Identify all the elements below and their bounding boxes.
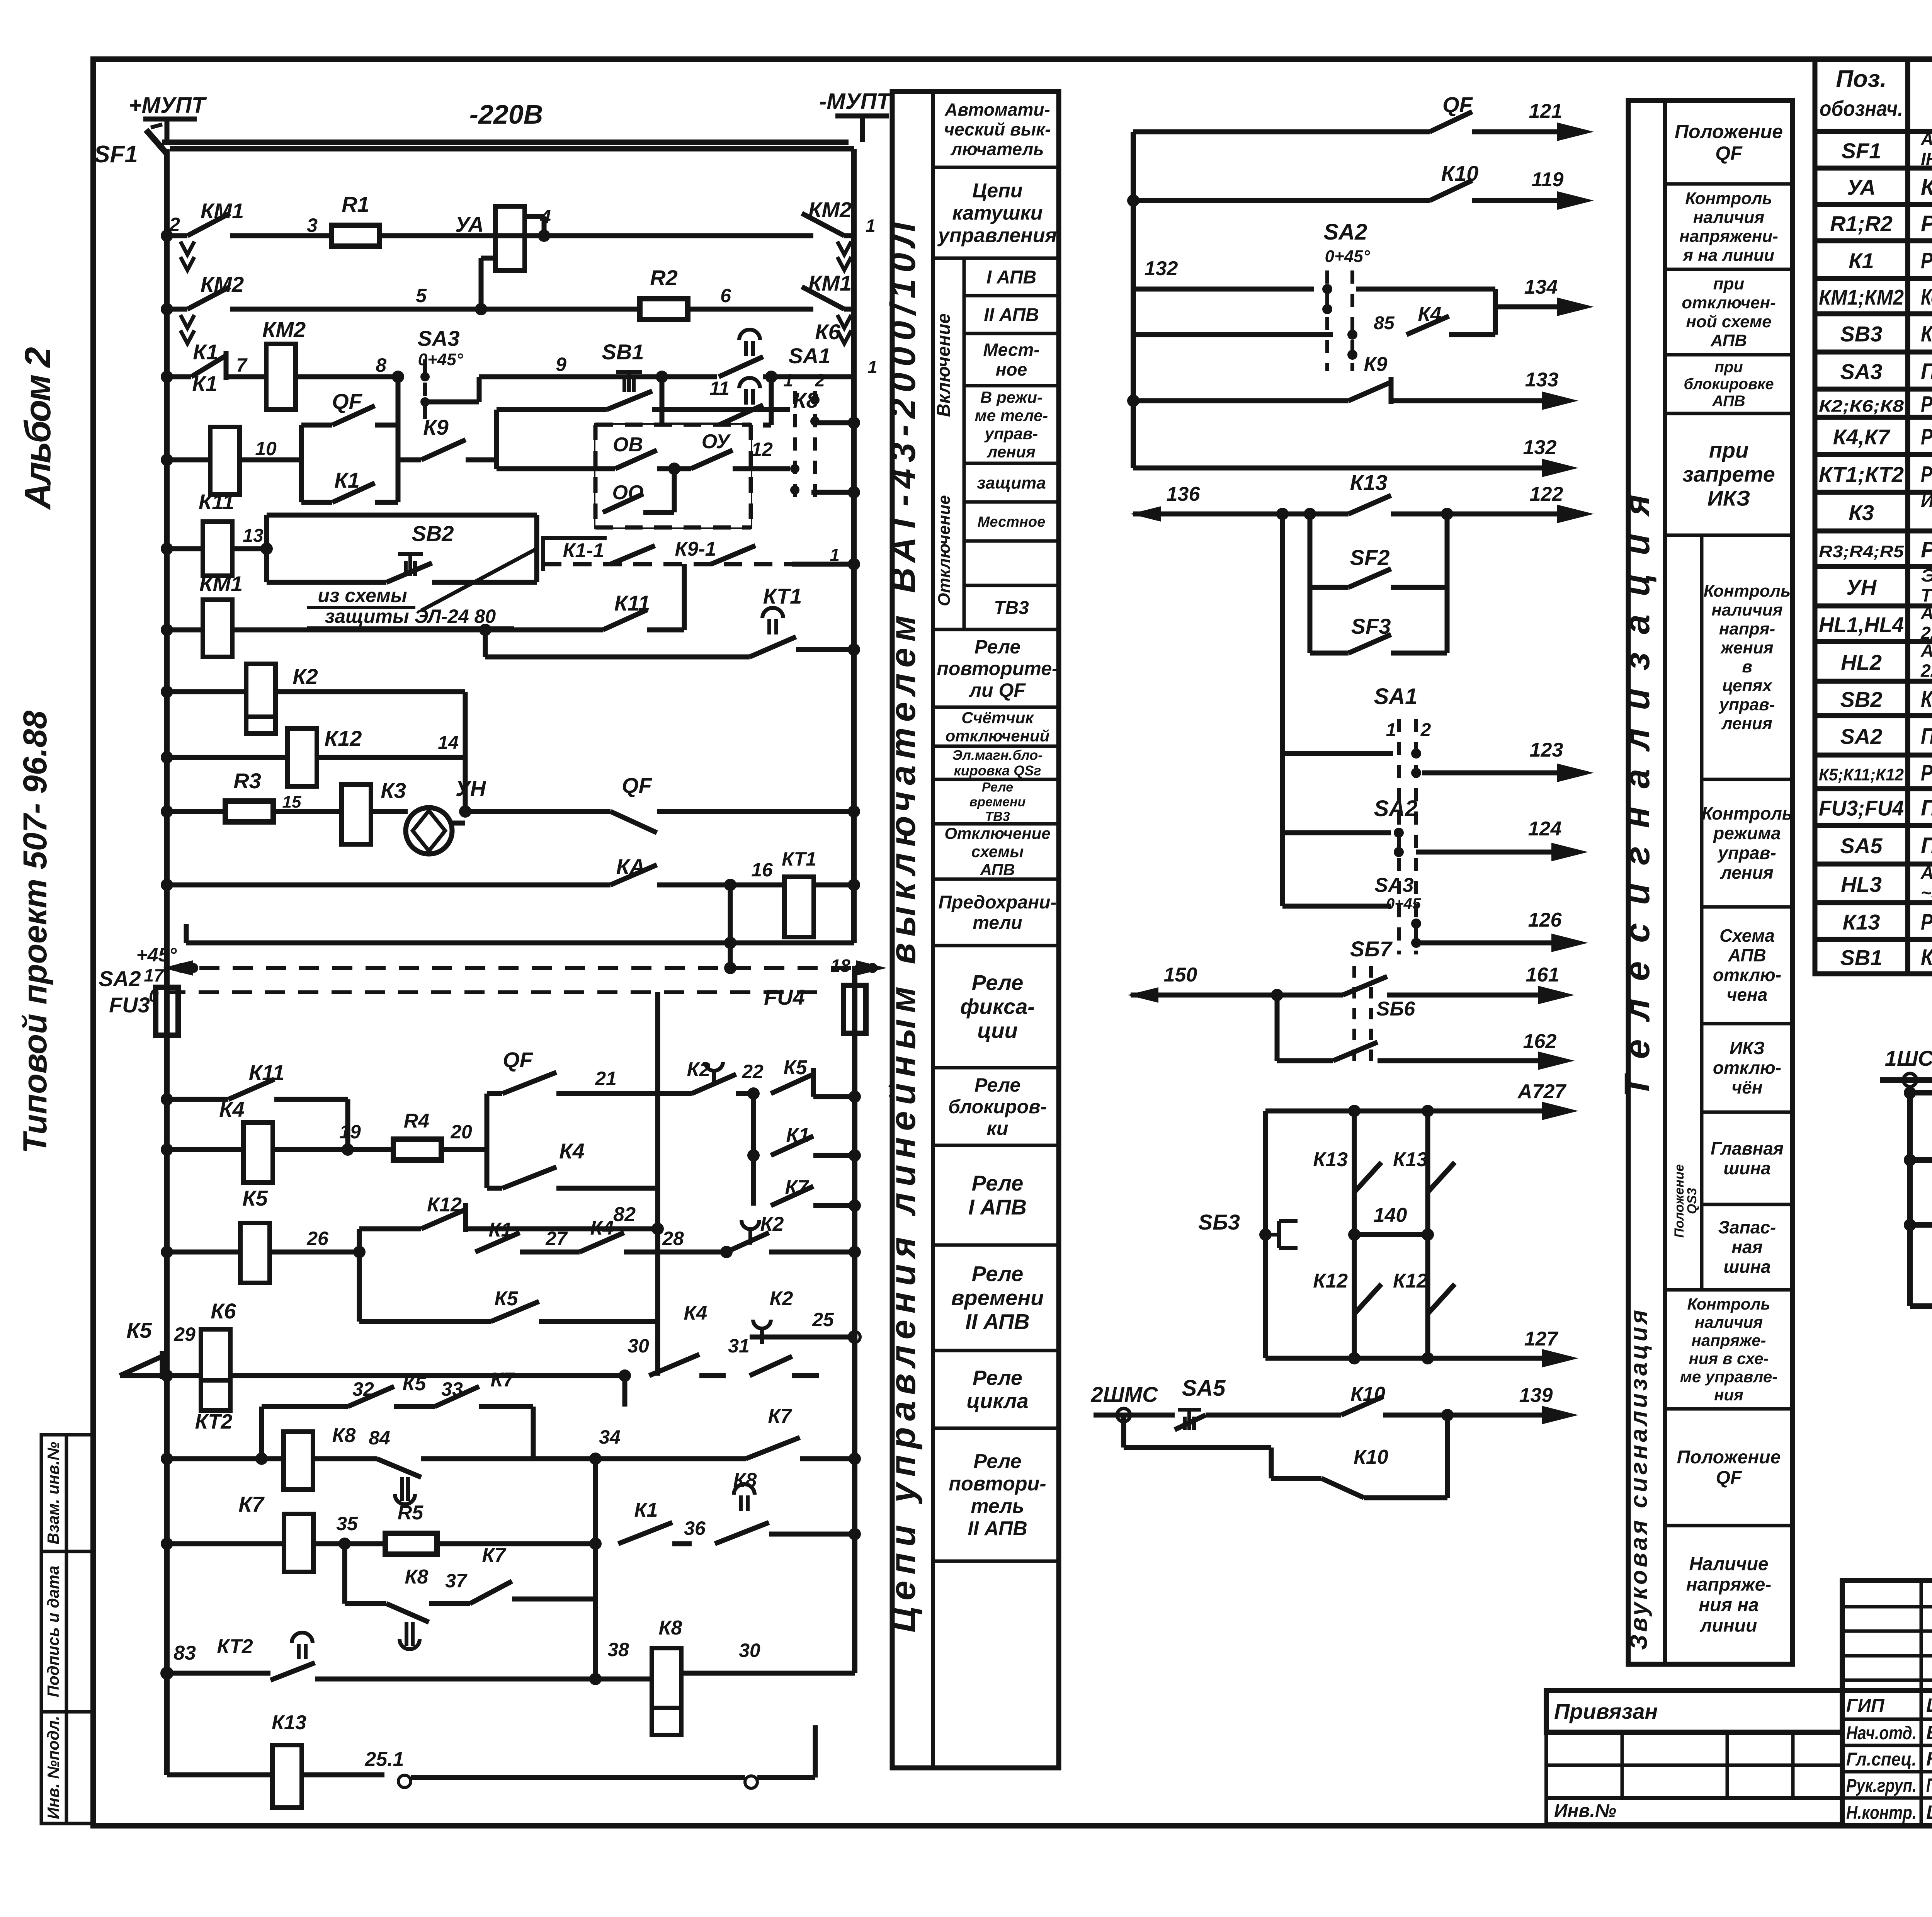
svg-text:К13: К13 xyxy=(1350,470,1388,495)
wire row 127 xyxy=(1265,1356,1546,1361)
svg-text:19: 19 xyxy=(339,1121,361,1143)
parts table grid xyxy=(1815,59,1932,974)
svg-text:Реле: Реле xyxy=(975,1074,1020,1096)
svg-text:Переключатель ТП1-2УСО.360.049: Переключатель ТП1-2УСО.360.049ТУ xyxy=(1921,833,1932,858)
svg-text:катушки: катушки xyxy=(952,202,1043,224)
svg-text:Цепи управления линейным вы: Цепи управления линейным выключателем ВА… xyxy=(883,221,923,1633)
svg-text:35: 35 xyxy=(336,1513,358,1534)
svg-text:К3: К3 xyxy=(381,778,406,803)
svg-text:К1-1: К1-1 xyxy=(563,539,604,562)
contact K4 row 85 xyxy=(1133,332,1333,337)
svg-text:ния на: ния на xyxy=(1699,1595,1759,1616)
svg-text:УА: УА xyxy=(455,212,484,236)
band2 cell при xyxy=(1665,353,1793,357)
svg-text:К13: К13 xyxy=(1843,910,1880,934)
svg-text:37: 37 xyxy=(445,1570,468,1592)
svg-text:QS3: QS3 xyxy=(1685,1188,1699,1214)
svg-text:К7: К7 xyxy=(491,1369,515,1391)
svg-text:Электромагнитный блок-замок 36: Электромагнитный блок-замок 36-1У3; -220… xyxy=(1921,565,1932,585)
svg-text:схемы: схемы xyxy=(971,842,1024,861)
svg-text:Мест-: Мест- xyxy=(983,340,1039,360)
svg-text:1: 1 xyxy=(867,357,878,377)
resistor R2 xyxy=(640,299,688,320)
wire 126 row xyxy=(1282,904,1391,909)
svg-text:Инв.№: Инв.№ xyxy=(1554,1801,1616,1821)
table row К4,К7 xyxy=(1815,452,1932,457)
svg-text:К7: К7 xyxy=(768,1405,793,1427)
svg-text:SA5: SA5 xyxy=(1182,1376,1226,1401)
svg-text:123: 123 xyxy=(1530,739,1563,761)
table row SA2 xyxy=(1815,753,1932,758)
svg-text:Переключатель УП5313-Ж70 ТУ16-: Переключатель УП5313-Ж70 ТУ16-524.074-75 xyxy=(1921,359,1932,384)
svg-text:напря-: напря- xyxy=(1719,619,1775,638)
svg-text:из схемы: из схемы xyxy=(318,585,407,606)
svg-text:К3: К3 xyxy=(1849,500,1874,525)
svg-text:2: 2 xyxy=(1420,720,1431,740)
wire row 132 bottom xyxy=(1133,466,1546,471)
lamp HL4 row 137 xyxy=(1910,1303,1932,1309)
svg-text:+45°: +45° xyxy=(136,944,177,966)
svg-text:тель: тель xyxy=(971,1495,1024,1517)
svg-text:АПВ: АПВ xyxy=(980,861,1015,879)
svg-text:1: 1 xyxy=(866,216,876,236)
svg-text:времени: времени xyxy=(969,794,1026,809)
band Телесигнализация / Звуковая сигнализация xyxy=(1628,100,1793,1664)
table row УН xyxy=(1815,604,1932,609)
svg-text:блокировке: блокировке xyxy=(1684,376,1774,393)
band2 cell Запас- xyxy=(1702,1203,1793,1206)
svg-text:SF1: SF1 xyxy=(1842,139,1881,163)
svg-text:HL1,HL4: HL1,HL4 xyxy=(1819,612,1904,637)
svg-text:К1: К1 xyxy=(334,468,360,492)
svg-text:161: 161 xyxy=(1526,964,1560,986)
svg-text:HL2: HL2 xyxy=(1841,650,1882,675)
table row УА xyxy=(1815,202,1932,207)
svg-text:АПВ: АПВ xyxy=(1712,393,1745,410)
pushbutton SB1 row 11 xyxy=(494,410,499,469)
return wire xyxy=(184,924,189,943)
svg-text:Контактор МК-1/20У3А;220В;б.к.: Контактор МК-1/20У3А;220В;б.к.2у+2р;ТУ16… xyxy=(1921,285,1932,310)
svg-text:Альбом 2: Альбом 2 xyxy=(17,347,58,510)
svg-text:управ-: управ- xyxy=(1719,695,1775,714)
svg-text:Привязан: Привязан xyxy=(1554,1699,1658,1723)
wire row 9 xyxy=(479,374,717,379)
svg-text:тели: тели xyxy=(973,913,1022,933)
svg-text:Арматура светосигнальная АЕ-32: Арматура светосигнальная АЕ-325, xyxy=(1920,603,1932,623)
svg-text:Автомати-: Автомати- xyxy=(944,100,1050,120)
table row HL3 xyxy=(1815,900,1932,905)
svg-text:SA3: SA3 xyxy=(1374,874,1413,896)
svg-text:Реле: Реле xyxy=(972,1261,1024,1286)
svg-text:6: 6 xyxy=(720,285,731,306)
svg-text:SB1: SB1 xyxy=(1840,946,1883,970)
band1 cell Реле xyxy=(933,1243,1059,1247)
svg-text:21: 21 xyxy=(595,1068,617,1089)
band2 cell Контроль xyxy=(1702,534,1793,537)
svg-text:напряже-: напряже- xyxy=(1686,1575,1772,1595)
svg-text:запрете: запрете xyxy=(1682,462,1775,486)
coil KT2 row 34 xyxy=(161,1453,173,1465)
svg-text:шина: шина xyxy=(1723,1158,1770,1178)
svg-text:ТВ3: ТВ3 xyxy=(994,598,1029,618)
svg-text:Блохин: Блохин xyxy=(1926,1722,1932,1744)
sidebar box Подпись и дата xyxy=(41,1551,94,1712)
band1 subcell В режи- xyxy=(964,384,1059,388)
band2 cell при xyxy=(1665,268,1793,271)
svg-text:119: 119 xyxy=(1532,168,1564,191)
contact SB6 row 162 xyxy=(1275,995,1280,1061)
svg-text:повторите-: повторите- xyxy=(937,658,1058,679)
wire 12 to SA1 xyxy=(751,466,790,471)
svg-text:Резистор ПЭ-150; 40м; ГОСТ 651: Резистор ПЭ-150; 40м; ГОСТ 6513-75 xyxy=(1921,211,1932,236)
svg-text:К12: К12 xyxy=(1393,1270,1428,1292)
contact row 133 xyxy=(1127,395,1139,407)
svg-text:К6: К6 xyxy=(815,320,840,344)
table row SF1 xyxy=(1815,166,1932,171)
long vertical 82 xyxy=(655,992,660,1376)
svg-text:КТ1: КТ1 xyxy=(763,584,802,608)
table row HL1,HL4 xyxy=(1815,639,1932,644)
svg-text:38: 38 xyxy=(607,1639,629,1660)
svg-text:КТ1: КТ1 xyxy=(782,848,816,870)
svg-text:QF: QF xyxy=(332,389,363,413)
svg-text:SБ3: SБ3 xyxy=(1198,1210,1240,1234)
contact K5 NC row 29 xyxy=(161,1369,173,1382)
contact SB6 row 161 xyxy=(1343,976,1387,995)
svg-text:Переключатель УП5314-К-276У3;Т: Переключатель УП5314-К-276У3;ТУ16.524.07… xyxy=(1921,724,1932,749)
svg-text:Реле промежуточное РП23У3,-22: Реле промежуточное РП23У3,-220В,ТУ16.523… xyxy=(1921,910,1932,935)
svg-text:139: 139 xyxy=(1519,1384,1553,1407)
svg-text:84: 84 xyxy=(369,1427,390,1449)
svg-text:Катушка управления: Катушка управления xyxy=(1921,175,1932,200)
svg-text:А727: А727 xyxy=(1517,1080,1566,1103)
svg-text:12: 12 xyxy=(751,439,773,460)
contact SF2 branch xyxy=(1308,514,1313,653)
svg-text:SБ6: SБ6 xyxy=(1376,998,1416,1020)
contact KT1 time delay xyxy=(483,630,488,657)
svg-text:1: 1 xyxy=(830,545,840,565)
title block left Инв.№ row xyxy=(1546,1798,1842,1824)
svg-text:цепях: цепях xyxy=(1722,676,1772,695)
contact K5 sub branch xyxy=(357,1252,362,1322)
svg-text:К4: К4 xyxy=(684,1302,707,1324)
svg-text:II АПВ: II АПВ xyxy=(968,1517,1027,1540)
band1 cell Реле xyxy=(933,944,1059,947)
svg-text:ления: ления xyxy=(1721,714,1772,733)
svg-text:QF: QF xyxy=(622,773,653,798)
svg-text:Наличие: Наличие xyxy=(1689,1554,1768,1575)
svg-text:SF1: SF1 xyxy=(94,141,138,168)
svg-text:I АПВ: I АПВ xyxy=(986,267,1036,287)
svg-text:3: 3 xyxy=(307,214,318,236)
svg-text:режима: режима xyxy=(1713,823,1781,843)
svg-text:Отключение: Отключение xyxy=(935,495,954,606)
svg-text:блокиров-: блокиров- xyxy=(948,1096,1047,1118)
svg-text:18: 18 xyxy=(830,956,850,976)
svg-text:SA3: SA3 xyxy=(1840,359,1883,384)
wire 123 row xyxy=(1282,751,1393,756)
svg-text:HL3: HL3 xyxy=(1841,872,1882,896)
band1 cell Реле xyxy=(933,1066,1059,1070)
svg-text:К7: К7 xyxy=(482,1544,507,1567)
lamp HL1 row 131 xyxy=(1904,1219,1916,1231)
svg-text:Контроль: Контроль xyxy=(1702,803,1793,823)
band1 cell Цепи xyxy=(933,166,1059,169)
svg-text:R2: R2 xyxy=(650,265,678,290)
band1 subcell защита xyxy=(964,462,1059,465)
band2 cell Главная xyxy=(1702,1111,1793,1114)
svg-text:В режи-: В режи- xyxy=(980,388,1043,407)
svg-text:К12: К12 xyxy=(1313,1270,1348,1292)
svg-text:шина: шина xyxy=(1723,1257,1770,1277)
svg-text:SA1: SA1 xyxy=(1374,684,1418,709)
svg-text:защиты ЭЛ-24 80: защиты ЭЛ-24 80 xyxy=(325,606,496,627)
wire 134 row xyxy=(1356,287,1495,292)
svg-text:Реле: Реле xyxy=(972,1171,1024,1195)
svg-text:R5: R5 xyxy=(398,1502,424,1524)
svg-text:Рук.груп.: Рук.груп. xyxy=(1846,1776,1917,1796)
svg-text:Реле: Реле xyxy=(975,636,1020,658)
svg-text:Шишло: Шишло xyxy=(1926,1801,1932,1823)
svg-text:наличия: наличия xyxy=(1695,1313,1763,1331)
band1 subcell ТВ3 xyxy=(964,584,1059,587)
svg-text:ИКЗ: ИКЗ xyxy=(1730,1038,1765,1058)
svg-text:136: 136 xyxy=(1167,483,1201,505)
svg-text:К5: К5 xyxy=(403,1373,427,1395)
svg-text:К2: К2 xyxy=(293,664,318,689)
svg-text:Эл.магн.бло-: Эл.магн.бло- xyxy=(952,747,1043,763)
band1 subcell II АПВ xyxy=(964,294,1059,298)
svg-text:25.1: 25.1 xyxy=(364,1748,404,1771)
svg-text:ОУ: ОУ xyxy=(702,430,731,453)
svg-text:К4: К4 xyxy=(219,1097,245,1121)
svg-text:Н.контр.: Н.контр. xyxy=(1846,1803,1917,1823)
svg-text:2211У2; ~36В ТУ 16.535.582-: 2211У2; ~36В ТУ 16.535.582-76 xyxy=(1920,623,1932,643)
svg-text:Реле: Реле xyxy=(973,1366,1022,1390)
svg-text:QF: QF xyxy=(1716,1468,1742,1488)
svg-text:ОВ: ОВ xyxy=(613,434,643,456)
svg-text:~36В ТУ16,535.582-76: ~36В ТУ16,535.582-76 xyxy=(1921,883,1932,903)
svg-text:132: 132 xyxy=(1145,257,1178,280)
svg-text:Запас-: Запас- xyxy=(1718,1217,1776,1237)
svg-text:Реле промежуточное РП-252У3,-: Реле промежуточное РП-252У3,-220В;ТУ16.5… xyxy=(1921,392,1932,417)
svg-text:SA2: SA2 xyxy=(1324,219,1367,245)
band1 cell Эл.магн.бло- xyxy=(933,745,1059,748)
contact КА row 16 xyxy=(161,879,173,891)
svg-text:К1: К1 xyxy=(192,371,218,396)
svg-text:36: 36 xyxy=(684,1517,706,1539)
band1 cell Реле xyxy=(933,1427,1059,1430)
contact K1 NC row 7 xyxy=(161,371,173,383)
resistor R3 row 15 xyxy=(161,805,173,818)
coil KM1 row xyxy=(161,624,173,636)
svg-text:122: 122 xyxy=(1530,483,1563,505)
svg-text:I АПВ: I АПВ xyxy=(968,1195,1027,1219)
svg-text:ции: ции xyxy=(977,1018,1018,1043)
coil K5 row 26 xyxy=(161,1246,173,1258)
svg-text:КТ2: КТ2 xyxy=(195,1410,233,1433)
band1 cell Счётчик xyxy=(933,706,1059,709)
svg-text:К1: К1 xyxy=(634,1499,658,1521)
right rail lower section xyxy=(852,966,857,1673)
svg-text:управ-: управ- xyxy=(984,425,1038,443)
table row R3;R4;R5 xyxy=(1815,564,1932,569)
band1 cell Автомати- xyxy=(933,90,1059,94)
svg-text:7: 7 xyxy=(236,354,248,376)
svg-text:31: 31 xyxy=(728,1335,750,1357)
node 8 xyxy=(392,371,404,383)
svg-text:ная: ная xyxy=(1731,1237,1762,1257)
table row SA5 xyxy=(1815,862,1932,867)
right bus top section xyxy=(851,149,857,943)
svg-text:КТ2: КТ2 xyxy=(217,1635,253,1658)
svg-text:лючатель: лючатель xyxy=(950,139,1044,159)
contact K7 row 34 right xyxy=(595,1456,746,1461)
svg-text:29: 29 xyxy=(173,1323,196,1345)
svg-text:К9-1: К9-1 xyxy=(675,538,716,560)
svg-text:Счётчик: Счётчик xyxy=(961,709,1034,727)
svg-text:К12: К12 xyxy=(325,726,362,750)
svg-text:Поз.: Поз. xyxy=(1836,66,1886,92)
wire row 150-161 xyxy=(1128,987,1158,1003)
svg-text:Контроль: Контроль xyxy=(1685,189,1772,208)
table row HL2 xyxy=(1815,679,1932,684)
band1 cell Предохрани- xyxy=(933,878,1059,881)
svg-text:FU4: FU4 xyxy=(764,985,805,1009)
svg-text:ческий вык-: ческий вык- xyxy=(944,119,1051,139)
band2 cell Положение xyxy=(1665,99,1793,102)
svg-text:ТВ3: ТВ3 xyxy=(985,809,1010,824)
svg-text:линии: линии xyxy=(1700,1616,1757,1636)
coil K1 row 10 xyxy=(161,454,173,466)
svg-text:К8: К8 xyxy=(659,1617,682,1639)
svg-text:Типовой проект 507- 96.88: Типовой проект 507- 96.88 xyxy=(17,711,54,1153)
svg-text:140: 140 xyxy=(1374,1204,1407,1226)
svg-text:-МУПТ: -МУПТ xyxy=(819,89,892,114)
band1 subcell Местное xyxy=(964,500,1059,504)
svg-text:отключен-: отключен- xyxy=(1682,293,1776,312)
sidebar box Инв.№ подл. xyxy=(41,1712,94,1823)
svg-text:Реле: Реле xyxy=(973,1450,1021,1473)
svg-text:отклю-: отклю- xyxy=(1713,965,1781,985)
svg-text:Кнопка управления КЕ-011исп.1: Кнопка управления КЕ-011исп.1 ТУ16.526.4… xyxy=(1921,945,1932,970)
svg-text:К9: К9 xyxy=(1364,353,1388,376)
contact K6 with latch xyxy=(656,371,668,383)
svg-text:Гл.спец.: Гл.спец. xyxy=(1846,1749,1917,1770)
svg-text:управ-: управ- xyxy=(1717,843,1776,863)
resistor R1 xyxy=(332,225,379,246)
svg-text:К13: К13 xyxy=(272,1711,306,1734)
band2 cell Контроль xyxy=(1702,778,1793,781)
svg-text:0+45°: 0+45° xyxy=(1325,247,1370,266)
remote control dashed box ОВ ОУ ОО xyxy=(595,425,751,527)
svg-text:Реле: Реле xyxy=(982,780,1013,794)
svg-text:фикса-: фикса- xyxy=(960,994,1035,1019)
svg-text:цикла: цикла xyxy=(966,1390,1028,1413)
svg-text:Отключение: Отключение xyxy=(944,824,1050,842)
svg-text:АПВ: АПВ xyxy=(1710,331,1747,350)
svg-text:13: 13 xyxy=(243,526,264,546)
svg-text:ной схеме: ной схеме xyxy=(1686,312,1771,331)
coil K7 row 35 xyxy=(161,1538,173,1550)
svg-text:Включение: Включение xyxy=(934,313,954,417)
svg-text:К2: К2 xyxy=(760,1213,784,1235)
svg-text:132: 132 xyxy=(1523,436,1557,459)
svg-text:134: 134 xyxy=(1524,276,1558,298)
svg-text:времени: времени xyxy=(951,1285,1044,1310)
contact K1 branch xyxy=(751,1094,756,1155)
coil K2 row xyxy=(161,685,173,698)
svg-text:1ШСо: 1ШСо xyxy=(1885,1046,1932,1070)
svg-text:напряжени-: напряжени- xyxy=(1679,227,1778,246)
svg-text:Подпись и дата: Подпись и дата xyxy=(44,1566,62,1697)
band1 cell Реле xyxy=(933,628,1059,631)
svg-text:ния: ния xyxy=(1714,1386,1743,1404)
svg-text:ме теле-: ме теле- xyxy=(975,407,1048,425)
svg-text:30: 30 xyxy=(628,1335,649,1357)
svg-text:УН: УН xyxy=(456,776,486,801)
node 4 xyxy=(538,230,550,242)
svg-text:R4: R4 xyxy=(404,1110,430,1132)
svg-text:SA2: SA2 xyxy=(99,966,141,991)
svg-text:при: при xyxy=(1709,438,1749,462)
band1 cell Реле xyxy=(933,1349,1059,1352)
title block main grid xyxy=(1842,1691,1932,1826)
svg-text:КТ1;КТ2: КТ1;КТ2 xyxy=(1819,462,1904,486)
external protection link К1-1 К9-1 xyxy=(543,538,607,571)
svg-text:Щетинский: Щетинский xyxy=(1926,1694,1932,1716)
svg-text:Кнопка управления КЕ-011У3 исп: Кнопка управления КЕ-011У3 исп.1ТУ16.526… xyxy=(1921,321,1932,347)
table row R1;R2 xyxy=(1815,238,1932,243)
svg-text:IНР=6А ТУ16 522.064-75: IНР=6А ТУ16 522.064-75 xyxy=(1921,149,1932,169)
svg-text:ГИП: ГИП xyxy=(1846,1696,1885,1716)
control bus -220V double line xyxy=(162,139,849,145)
svg-text:162: 162 xyxy=(1523,1030,1557,1053)
table row КМ1;КМ2 xyxy=(1815,311,1932,316)
svg-text:Схема: Схема xyxy=(1719,925,1775,946)
svg-text:К13: К13 xyxy=(1313,1148,1348,1171)
svg-text:ное: ное xyxy=(996,359,1027,379)
svg-text:Предохрани-: Предохрани- xyxy=(939,892,1057,913)
band2 cell Схема xyxy=(1702,905,1793,909)
svg-text:SB1: SB1 xyxy=(602,340,644,364)
svg-text:К5: К5 xyxy=(495,1288,519,1310)
wire row А727 xyxy=(1265,1109,1546,1114)
svg-text:Реле времени ВЛ-68УХЛ4;-220В,: Реле времени ВЛ-68УХЛ4;-220В, 1÷999с ТУ1… xyxy=(1921,462,1932,487)
contact K5 row 32-33 branch xyxy=(259,1407,264,1459)
svg-text:Положение: Положение xyxy=(1677,1447,1781,1468)
band1 cell Реле xyxy=(933,1144,1059,1147)
svg-text:FU3: FU3 xyxy=(109,993,150,1017)
contact KM1 row 2-3 xyxy=(161,230,173,242)
svg-text:Арматура светосигнальная АЕ-32: Арматура светосигнальная АЕ-323, xyxy=(1920,641,1932,661)
svg-text:R1;R2: R1;R2 xyxy=(1830,211,1893,236)
svg-text:ли QF: ли QF xyxy=(969,679,1026,701)
table row КТ1;КТ2 xyxy=(1815,490,1932,495)
table row FU3;FU4 xyxy=(1815,823,1932,828)
svg-text:Автоматический выключатель АЕ-: Автоматический выключатель АЕ-2016-20 НУ… xyxy=(1920,129,1932,149)
svg-text:К5: К5 xyxy=(784,1056,808,1079)
svg-text:Реле промежуточное РП-23У3;-11: Реле промежуточное РП-23У3;-110В;ТУ16.52… xyxy=(1921,424,1932,449)
svg-text:2ШМС: 2ШМС xyxy=(1090,1382,1158,1407)
svg-text:1: 1 xyxy=(783,370,793,390)
svg-text:повтори-: повтори- xyxy=(949,1473,1046,1495)
svg-text:АПВ: АПВ xyxy=(1728,945,1766,965)
svg-text:Реле промежуточное РП-23У3,-22: Реле промежуточное РП-23У3,-220В;ТУ16.52… xyxy=(1921,248,1932,273)
svg-text:при: при xyxy=(1714,359,1743,376)
svg-text:Резистор ПЭВ-25, 2,2 кОм, ГОСТ: Резистор ПЭВ-25, 2,2 кОм, ГОСТ 6513-75 xyxy=(1921,537,1932,562)
contact KT2 row 83 xyxy=(160,1667,173,1680)
